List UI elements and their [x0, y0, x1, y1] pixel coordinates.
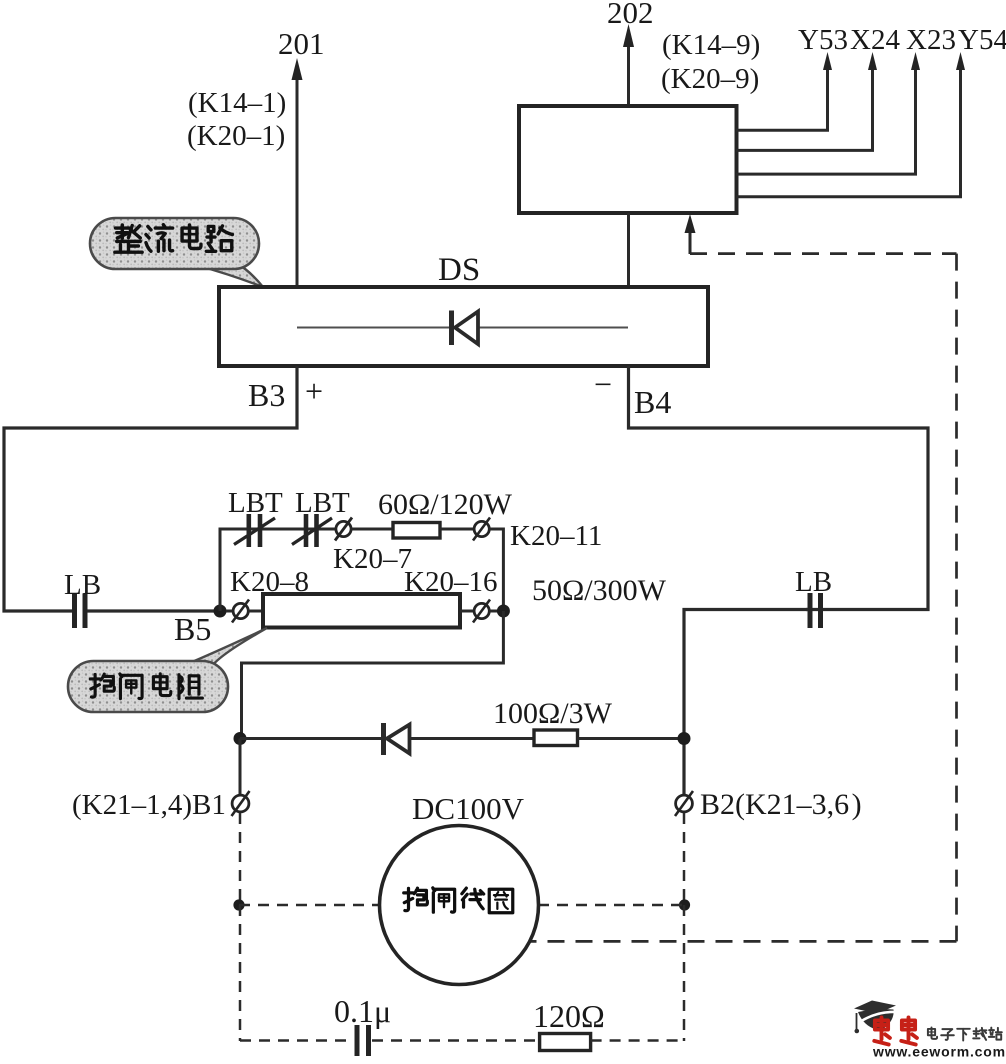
svg-text:B2(K21–3,6 ): B2(K21–3,6 )	[700, 788, 862, 821]
node coil right	[679, 899, 690, 910]
svg-text:201: 201	[278, 26, 325, 61]
wire output Y53	[736, 66, 828, 130]
diode V1 triangle	[387, 725, 410, 754]
svg-text:DS: DS	[438, 252, 480, 288]
wire to diode	[240, 737, 381, 740]
wire output X23	[736, 66, 916, 174]
wire brake resistor to K20-16 terminal	[460, 610, 474, 613]
dashed wire B1 node down to bottom row	[239, 905, 242, 1041]
svg-text:50Ω/300W: 50Ω/300W	[532, 574, 667, 607]
wire terminal to brake resistor	[248, 610, 263, 613]
wire resistor to right node	[578, 737, 685, 740]
svg-text:K20–11: K20–11	[510, 520, 602, 552]
watermark logo: 虫虫 red	[874, 1018, 917, 1045]
resistor 120ohm	[540, 1034, 591, 1051]
dashed wire B2 node down to bottom row	[683, 905, 686, 1041]
svg-text:B4: B4	[634, 384, 671, 420]
contact LBT 2	[292, 514, 332, 547]
wire diode to resistor	[410, 737, 534, 740]
dashed feedback wire bottom to coil	[529, 940, 957, 943]
svg-text:60Ω/120W: 60Ω/120W	[378, 488, 513, 521]
svg-text:LB: LB	[795, 566, 832, 598]
wire B1 drop	[239, 739, 242, 796]
rectifier block DS	[219, 287, 708, 366]
node B5 junction	[214, 605, 227, 618]
diode cathode bar	[449, 311, 454, 346]
svg-text:Y54: Y54	[958, 24, 1006, 56]
dashed wire B1 to coil node	[239, 813, 242, 905]
wire B3 branch down-left	[4, 366, 297, 611]
dashed bottom wire middle	[372, 1039, 539, 1042]
resistor 100ohm/3W	[534, 730, 578, 746]
callout bubble: brake resistor 抱闸电阻	[68, 628, 267, 712]
dashed feedback wire vertical right	[955, 254, 958, 942]
svg-text:202: 202	[607, 0, 654, 30]
dashed bottom wire left	[240, 1039, 353, 1042]
dashed wire B2 to coil node	[683, 813, 686, 905]
wire B4 branch down-right	[629, 366, 929, 610]
svg-text:www.eeworm.com: www.eeworm.com	[872, 1044, 1006, 1060]
brake resistor 50ohm/300W	[263, 594, 460, 628]
svg-text:X24: X24	[850, 24, 900, 56]
wire output X24	[736, 66, 873, 150]
dashed wire coil left	[239, 904, 378, 907]
wire 202 riser	[627, 40, 630, 106]
wire node B5 to K20-8 terminal	[226, 610, 233, 613]
watermark logo: 电子下载站	[928, 1027, 1002, 1040]
svg-text:K20–7: K20–7	[333, 543, 412, 575]
capacitor LB left	[72, 594, 77, 628]
node coil left	[233, 899, 244, 910]
diode V1 cathode bar	[381, 723, 386, 755]
terminal B1	[232, 791, 250, 816]
node right of brake resistor	[497, 605, 510, 618]
svg-text:B5: B5	[174, 611, 211, 647]
wire terminal to right node	[489, 610, 503, 613]
terminal K20-16	[473, 600, 490, 623]
terminal K20-7	[335, 518, 352, 541]
node 201 arrowhead	[292, 58, 303, 80]
node 202 arrowhead	[623, 24, 634, 47]
svg-text:(K21–1,4)B1: (K21–1,4)B1	[72, 789, 226, 821]
dashed wire coil right	[538, 904, 685, 907]
wire B5 up to LBT row	[220, 529, 336, 611]
node diode row right	[678, 732, 691, 745]
diode triangle	[455, 312, 478, 345]
dashed bottom wire right	[591, 1039, 684, 1042]
callout bubble: rectifier circuit 整流电路	[90, 218, 263, 287]
wire LB right to B2 drop	[684, 610, 808, 796]
svg-text:(K20–9): (K20–9)	[661, 63, 759, 95]
wire terminal to resistor	[350, 528, 393, 531]
wire control box to DS	[627, 213, 630, 288]
wire 201 riser	[296, 72, 299, 428]
svg-text:LBT: LBT	[228, 487, 283, 519]
svg-text:0.1μ: 0.1μ	[334, 993, 391, 1029]
svg-text:(K20–1): (K20–1)	[187, 120, 285, 152]
brake coil 抱闸线圈	[380, 826, 539, 985]
wire resistor to K20-11 terminal	[440, 528, 474, 531]
dashed feedback wire horizontal top	[690, 252, 957, 255]
terminal K20-8	[232, 600, 249, 623]
wire output Y54	[736, 66, 961, 197]
node diode row left	[234, 732, 247, 745]
wire K20-11 corner down	[489, 529, 503, 605]
svg-text:+: +	[305, 373, 323, 409]
svg-text:(K14–9): (K14–9)	[662, 29, 760, 61]
diode inside DS: anode wire	[478, 327, 628, 329]
resistor 60ohm/120W	[393, 523, 440, 539]
terminal K20-11	[473, 518, 490, 541]
control unit box	[519, 106, 737, 213]
wire node down-left to diode row	[242, 611, 504, 739]
svg-text:100Ω/3W: 100Ω/3W	[493, 697, 613, 730]
contact LBT 1	[234, 514, 275, 547]
capacitor LB right	[808, 593, 813, 628]
svg-text:K20–16: K20–16	[404, 566, 497, 598]
svg-text:X23: X23	[906, 24, 956, 56]
diode inside DS: cathode wire	[297, 327, 450, 329]
wire LB to node B5	[87, 609, 220, 612]
watermark logo: graduation cap	[854, 1001, 896, 1034]
wire feedback arrow into control box	[689, 230, 692, 254]
svg-text:120Ω: 120Ω	[533, 998, 605, 1034]
svg-text:Y53: Y53	[798, 24, 848, 56]
svg-text:LB: LB	[64, 569, 101, 601]
svg-text:(K14–1): (K14–1)	[188, 87, 286, 119]
svg-text:LBT: LBT	[295, 487, 350, 519]
terminal B2	[675, 791, 693, 816]
svg-text:B3: B3	[248, 377, 285, 413]
svg-text:−: −	[594, 366, 612, 402]
svg-text:DC100V: DC100V	[412, 791, 525, 826]
capacitor 0.1u	[355, 1025, 360, 1056]
